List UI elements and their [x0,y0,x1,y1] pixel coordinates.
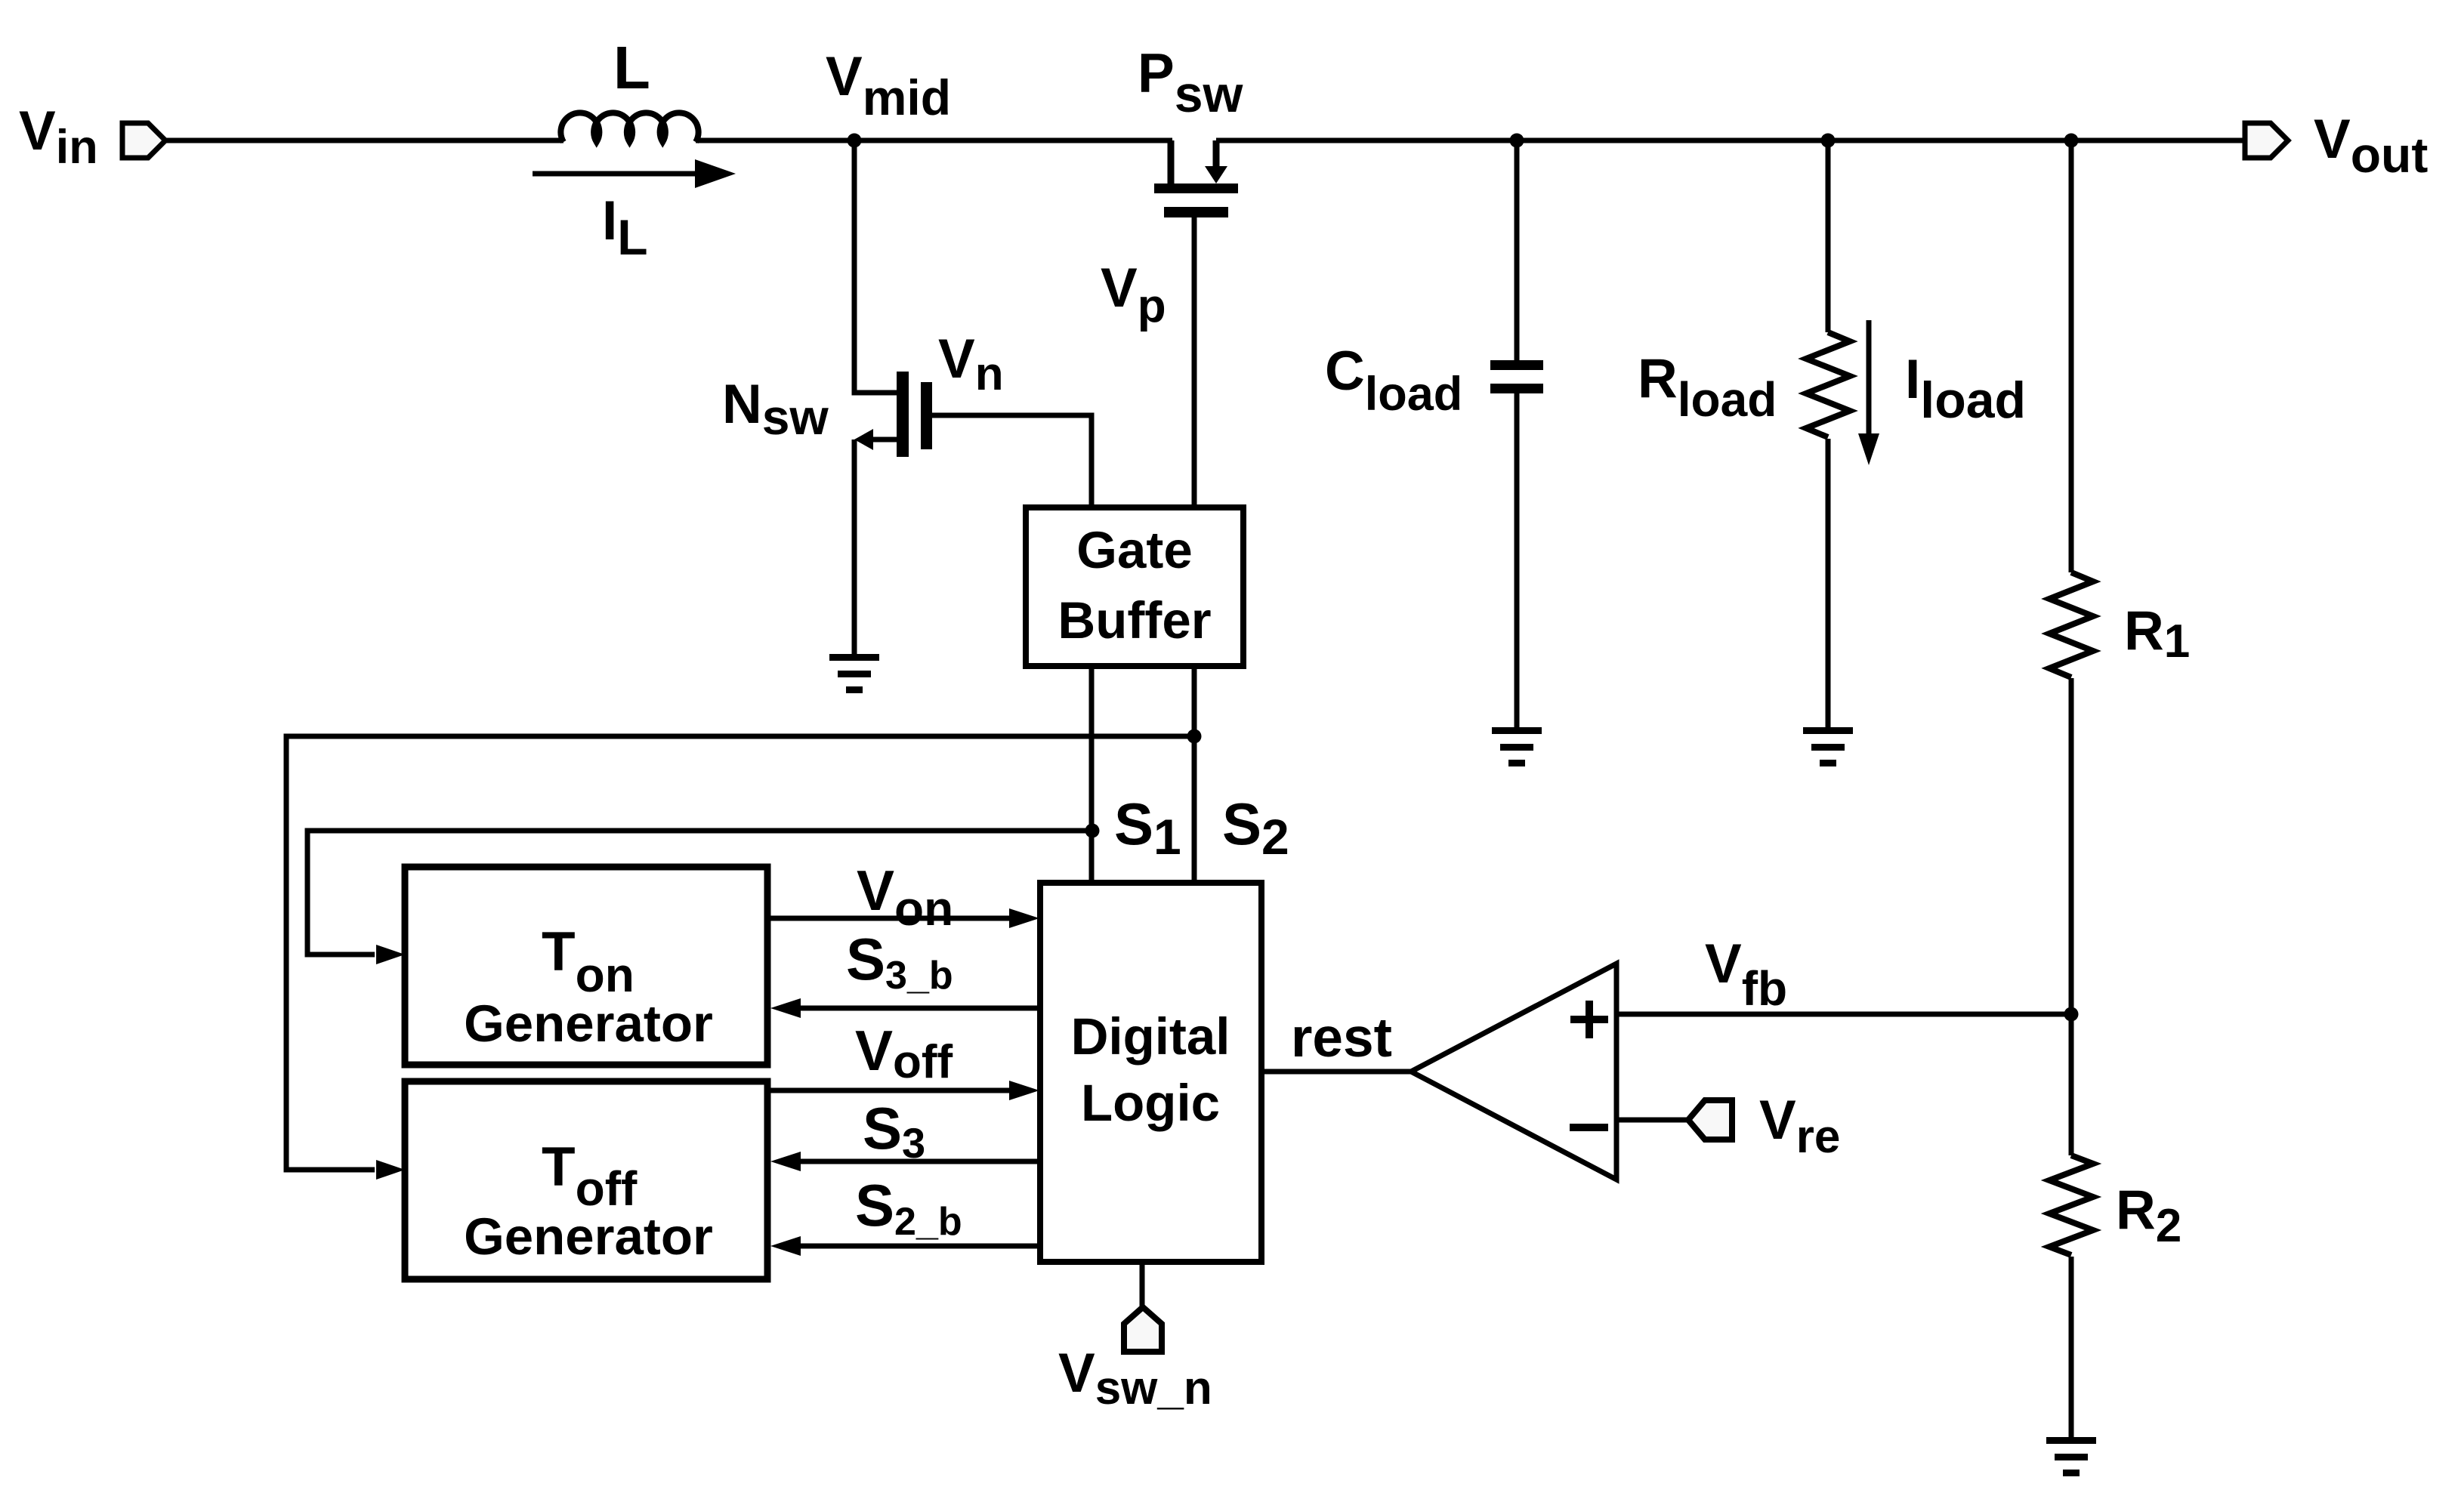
transistor Nsw NMOS [854,372,932,457]
terminal Vre [1688,1100,1732,1140]
wire Vsw_n stub below Digital Logic [1140,1262,1145,1309]
wire S2 feedback to Toff Generator [286,736,1194,1170]
minus input mark [1570,1124,1608,1131]
svg-text:rest: rest [1291,1007,1392,1069]
arrowhead S3_b into Ton Generator [770,998,801,1018]
terminal Vsw_n [1124,1307,1162,1352]
wire R1 branch from Vout rail [2069,140,2074,572]
wire Cload branch upper [1515,140,1520,360]
wire S2_b Digital Logic to Toff Generator [799,1244,1040,1249]
transistor Psw PMOS [1154,140,1238,217]
node S1 feedback junction dot [1085,824,1100,838]
arrowhead S1 feedback into Ton Generator [376,945,405,964]
svg-text:Buffer: Buffer [1058,591,1211,649]
arrow Iload load current [1858,320,1879,465]
wire Vin to inductor [163,138,564,143]
wire Nsw source down to ground [852,439,857,654]
arrowhead Voff into Digital Logic [1009,1081,1039,1100]
wire inductor to Psw drain gap [696,138,1172,143]
wire Von Ton Generator to Digital Logic [767,916,1011,921]
resistor Rload [1806,332,1850,437]
wire Psw gate Vp to Gate Buffer [1192,217,1197,507]
box Ton Generator [405,867,767,1065]
box Toff Generator [405,1081,767,1279]
wire S3 Digital Logic to Toff Generator [799,1159,1040,1164]
box Digital Logic [1040,883,1261,1262]
ground below Nsw [829,654,879,693]
node R1 junction dot [2064,134,2079,148]
wire node Vmid down to Nsw drain [854,140,897,393]
arrowhead Von into Digital Logic [1009,908,1039,928]
resistor R2 [2049,1155,2093,1255]
op-amp comparator [1411,964,1616,1180]
wire Nsw gate Vn to Gate Buffer [932,415,1092,507]
arrowhead S3 into Toff Generator [770,1152,801,1171]
node Vfb junction dot [2064,1007,2079,1022]
svg-text:Generator: Generator [464,995,713,1053]
svg-text:Generator: Generator [464,1207,713,1266]
wire Voff Toff Generator to Digital Logic [767,1088,1011,1093]
capacitor Cload [1490,360,1543,393]
svg-text:Gate: Gate [1076,521,1192,579]
arrowhead S2 feedback into Toff Generator [376,1160,405,1180]
box Gate Buffer [1026,507,1243,666]
plus input mark [1570,1001,1608,1038]
wire Vre comparator minus input [1616,1118,1690,1123]
arrowhead S2_b into Toff Generator [770,1236,801,1256]
wire rest comparator to Digital Logic [1261,1069,1411,1075]
wire R1 to Vfb node to R2 [2069,678,2074,1155]
wire S2 Gate Buffer to Digital Logic [1192,666,1197,883]
svg-text:Logic: Logic [1081,1074,1220,1132]
wire Rload branch upper [1826,140,1831,332]
wire Vfb comparator plus input [1616,1012,2071,1017]
wire S1 Gate Buffer to Digital Logic [1089,666,1095,883]
wire Psw source to Vout terminal [1216,138,2246,143]
ground below R2 [2046,1437,2096,1476]
wire Nsw source stub [869,437,897,443]
terminal Vin [122,123,165,158]
wire S1 feedback to Ton Generator [307,831,1092,955]
ground below Rload [1803,727,1853,766]
inductor L [560,113,698,142]
node Cload junction dot [1510,134,1524,148]
ground below Cload [1492,727,1542,766]
svg-text:Digital: Digital [1071,1007,1230,1066]
svg-text:L: L [613,34,650,101]
wire Rload branch lower to ground [1826,439,1831,727]
arrow IL inductor current [533,159,736,188]
resistor R1 [2049,572,2093,677]
node Vmid junction dot [848,134,862,148]
wire R2 to ground [2069,1257,2074,1437]
node S2 feedback junction dot [1187,729,1202,744]
wire Cload branch lower to ground [1515,393,1520,727]
node Rload junction dot [1821,134,1836,148]
wire S3_b Digital Logic to Ton Generator [801,1006,1040,1011]
terminal Vout [2245,123,2288,158]
